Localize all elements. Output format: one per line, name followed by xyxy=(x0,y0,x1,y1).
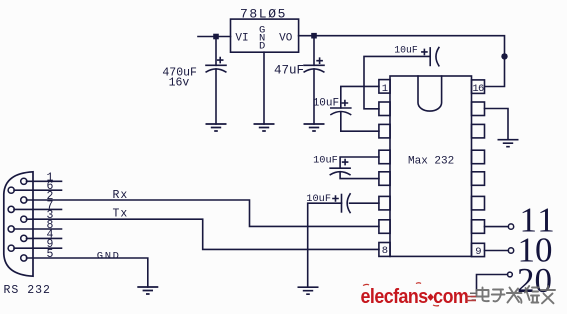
svg-text:47uF: 47uF xyxy=(274,64,304,78)
svg-text:20: 20 xyxy=(517,261,552,300)
svg-text:1: 1 xyxy=(382,83,388,95)
svg-text:16: 16 xyxy=(472,83,484,95)
svg-text:9: 9 xyxy=(475,246,481,258)
svg-text:Rx: Rx xyxy=(113,189,129,202)
svg-text:Max 232: Max 232 xyxy=(408,156,454,168)
svg-text:5: 5 xyxy=(47,248,54,261)
svg-text:elecfans◆com: elecfans◆com xyxy=(361,286,469,308)
svg-text:GND: GND xyxy=(97,251,121,263)
svg-text:10uF: 10uF xyxy=(313,97,339,109)
svg-text:RS 232: RS 232 xyxy=(4,284,51,297)
svg-text:D: D xyxy=(259,41,265,53)
svg-text:VI: VI xyxy=(235,32,248,44)
svg-text:Tx: Tx xyxy=(113,208,129,221)
svg-text:8: 8 xyxy=(382,245,388,257)
svg-text:78LØ5: 78LØ5 xyxy=(240,6,287,21)
svg-text:10uF: 10uF xyxy=(394,45,418,56)
svg-text:10uF: 10uF xyxy=(313,155,338,167)
svg-text:VO: VO xyxy=(279,32,293,44)
svg-text:16v: 16v xyxy=(169,77,190,90)
svg-text:10uF: 10uF xyxy=(306,193,331,205)
